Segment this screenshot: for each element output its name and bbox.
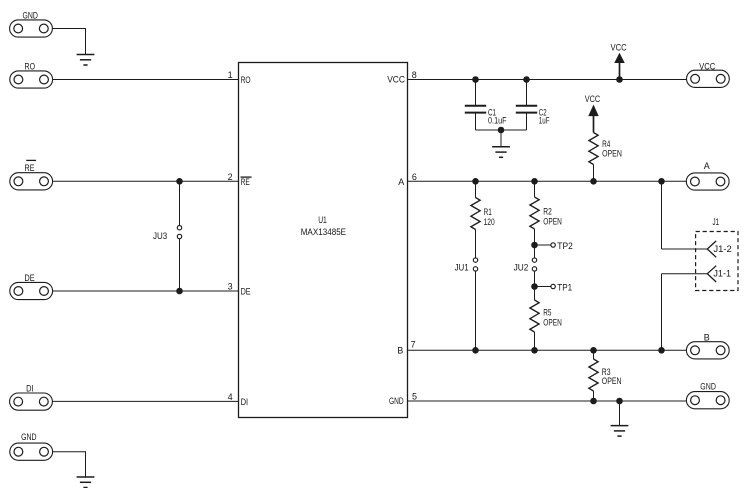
connector pad A: [686, 173, 729, 190]
svg-text:VCC: VCC: [699, 61, 716, 71]
wire capacitor ground bus: [476, 129, 527, 131]
svg-text:OPEN: OPEN: [543, 216, 562, 226]
svg-text:RE: RE: [241, 177, 250, 187]
pin J1-1: [707, 266, 716, 282]
svg-text:R5: R5: [543, 308, 551, 318]
svg-text:A: A: [704, 161, 710, 171]
svg-text:J1: J1: [713, 217, 720, 227]
svg-text:R4: R4: [602, 139, 610, 149]
wire A line to R2: [534, 181, 536, 197]
wire DI to U1 pin 4: [52, 400, 238, 402]
node DE/JU3 junction: [176, 288, 183, 295]
svg-text:VCC: VCC: [585, 94, 601, 104]
svg-text:TP2: TP2: [557, 241, 573, 251]
svg-text:7: 7: [411, 340, 416, 350]
wire A junction to J1-2: [661, 181, 663, 249]
capacitor C2: [516, 106, 537, 113]
svg-text:R2: R2: [543, 206, 552, 216]
svg-text:5: 5: [412, 391, 417, 401]
svg-text:GND: GND: [389, 396, 404, 406]
node TP1 junction: [531, 283, 538, 290]
svg-text:OPEN: OPEN: [602, 149, 622, 159]
jumper JU2: [532, 258, 536, 271]
jumper JU1: [473, 258, 477, 271]
wire JU2 to TP1 node: [534, 271, 536, 287]
svg-text:J1-2: J1-2: [713, 244, 731, 254]
wire U1 pin 6 A line: [408, 180, 687, 182]
ground (top left): [77, 55, 95, 66]
wire C1 top lead: [475, 80, 477, 106]
wire JU1 to B line: [475, 271, 477, 350]
connector pad GND (top left): [10, 20, 53, 37]
capacitor C1: [465, 106, 486, 113]
wire GND pad to ground: [52, 28, 85, 30]
connector pad DE: [10, 282, 53, 299]
wire B junction to J1-1: [661, 274, 663, 351]
svg-text:R1: R1: [484, 207, 492, 217]
wire TP2 node to JU2: [534, 245, 536, 258]
node C2 junction: [523, 76, 530, 83]
svg-text:1: 1: [228, 70, 233, 80]
svg-text:GND: GND: [700, 382, 716, 392]
wire U1 pin 5 GND line: [408, 400, 688, 402]
node RE/JU3 junction: [176, 178, 183, 185]
wire JU3 upper segment: [179, 181, 181, 225]
svg-text:OPEN: OPEN: [543, 318, 562, 328]
resistor R1: [471, 198, 480, 230]
wire JU3 lower segment: [179, 239, 181, 291]
wire U1 pin 8 VCC rail: [408, 79, 687, 81]
wire A line to R1: [475, 181, 477, 197]
connector pad RE: [10, 173, 53, 190]
wire capacitor ground stem: [500, 130, 502, 147]
connector pad RO: [10, 71, 53, 88]
node R3-GND junction: [590, 398, 597, 405]
jumper JU3: [177, 226, 181, 239]
svg-text:3: 3: [228, 282, 233, 292]
wire C1 bottom lead: [475, 113, 477, 130]
svg-text:JU3: JU3: [153, 231, 167, 241]
svg-text:1uF: 1uF: [539, 116, 550, 126]
pin J1-2: [707, 241, 716, 257]
resistor R5: [530, 300, 539, 332]
svg-text:J1-1: J1-1: [713, 269, 731, 279]
svg-text:2: 2: [228, 172, 233, 182]
node A/J1-2 junction: [658, 178, 665, 185]
op-amp U1 MAX13485E body: [239, 63, 408, 418]
wire GND pad to ground (bottom left): [53, 451, 86, 453]
test point TP1: [551, 284, 555, 288]
node ground stem junction: [616, 398, 623, 405]
node VCC arrow junction: [616, 76, 623, 83]
connector pad B: [686, 342, 729, 359]
wire TP1 node to R5: [534, 287, 536, 301]
wire R2 to TP2 node: [534, 229, 536, 245]
wire DE to U1 pin 3: [53, 290, 239, 292]
svg-text:MAX13485E: MAX13485E: [301, 227, 346, 237]
svg-text:GND: GND: [21, 432, 37, 442]
wire TP2 stub: [535, 244, 551, 246]
test point TP2: [551, 243, 555, 247]
svg-text:120: 120: [484, 217, 495, 227]
svg-text:8: 8: [412, 70, 417, 80]
svg-text:GND: GND: [23, 10, 39, 20]
node R1-B junction: [472, 347, 479, 354]
node R4 bottom junction: [590, 178, 597, 185]
wire ground stem (right): [619, 401, 621, 425]
node R1 top junction: [472, 178, 479, 185]
node R3 top junction: [590, 347, 597, 354]
ground (right): [611, 426, 629, 437]
wire B line to R3: [593, 350, 595, 359]
connector pad GND (bottom left): [10, 443, 53, 460]
ground (capacitors): [492, 147, 510, 158]
svg-text:DE: DE: [24, 273, 34, 283]
connector pad GND (right): [686, 392, 729, 409]
connector J1 dashed outline: [696, 232, 738, 291]
resistor R4: [589, 133, 598, 165]
svg-text:A: A: [398, 177, 404, 187]
node B/J1-1 junction: [658, 347, 665, 354]
svg-text:JU2: JU2: [514, 262, 529, 272]
svg-text:OPEN: OPEN: [602, 376, 622, 386]
svg-text:DI: DI: [26, 383, 33, 393]
wire RO to U1 pin 1: [53, 79, 239, 81]
connector pad DI: [10, 393, 53, 410]
wire R4 to A line: [593, 165, 595, 182]
ground (bottom left): [77, 477, 95, 488]
svg-text:JU1: JU1: [455, 262, 469, 272]
resistor R2: [530, 197, 539, 229]
wire U1 pin 7 B line: [408, 349, 687, 351]
wire C2 bottom lead: [526, 113, 528, 130]
svg-text:DI: DI: [241, 397, 249, 407]
svg-text:VCC: VCC: [611, 43, 628, 53]
wire R5 to B line: [534, 332, 536, 350]
node capacitor ground junction: [498, 127, 505, 134]
svg-text:6: 6: [412, 172, 417, 182]
svg-text:U1: U1: [318, 215, 327, 225]
wire C2 top lead: [526, 80, 528, 106]
svg-text:4: 4: [228, 392, 233, 402]
svg-text:RE: RE: [25, 163, 35, 173]
node C1 junction: [472, 76, 479, 83]
wire R1 to JU1: [475, 230, 477, 259]
node TP2 junction: [531, 242, 538, 249]
svg-text:DE: DE: [241, 287, 251, 297]
svg-text:0.1uF: 0.1uF: [488, 116, 507, 126]
svg-text:VCC: VCC: [387, 74, 405, 84]
wire R3 to GND line: [593, 391, 595, 401]
svg-text:B: B: [397, 345, 403, 355]
connector pad VCC (top right): [687, 70, 730, 87]
wire RE to U1 pin 2: [53, 180, 239, 182]
resistor R3: [589, 359, 598, 391]
wire TP1 stub: [535, 286, 551, 288]
svg-text:RO: RO: [25, 62, 36, 72]
node R2 top junction: [531, 178, 538, 185]
svg-text:B: B: [704, 332, 710, 342]
svg-text:RO: RO: [241, 75, 251, 85]
node R5-B junction: [531, 347, 538, 354]
svg-text:TP1: TP1: [557, 283, 572, 293]
